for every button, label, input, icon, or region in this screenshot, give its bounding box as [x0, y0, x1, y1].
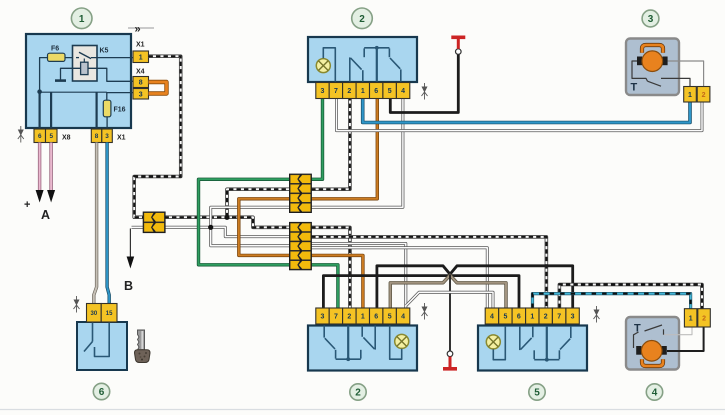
fuse F6 — [48, 53, 66, 61]
motor 3 armature — [642, 51, 663, 72]
relay K5 box — [73, 46, 98, 82]
svg-text:7: 7 — [557, 314, 561, 321]
svg-text:8: 8 — [139, 80, 143, 87]
svg-text:3: 3 — [571, 314, 575, 321]
junction dot bw — [224, 215, 229, 220]
bw dashed wire switch5 pin7 to motor4 pin2 — [559, 285, 702, 309]
svg-text:3: 3 — [321, 88, 325, 95]
svg-text:+: + — [24, 199, 30, 211]
svg-text:2: 2 — [702, 92, 706, 99]
svg-text:5: 5 — [503, 314, 507, 321]
black wire bottom switch pin6 to switch5 pin3 with crossover dip — [377, 266, 573, 308]
svg-text:5: 5 — [534, 388, 540, 399]
svg-text:2: 2 — [544, 314, 548, 321]
circled label 1 — [71, 8, 92, 29]
top switch pins 3 7 2 1 6 5 4 — [316, 83, 329, 99]
ground symbol T red top — [457, 39, 460, 49]
motor-reducer 4 box — [626, 317, 679, 370]
svg-text:8: 8 — [95, 133, 99, 140]
svg-text:4: 4 — [490, 314, 494, 321]
mounting block 1 box — [26, 34, 131, 128]
white wire junction to small connector row2 — [143, 226, 210, 229]
fuse F16 — [103, 100, 111, 117]
circled label 4 — [646, 384, 662, 400]
wire battery feed to fuse F6 — [40, 58, 73, 92]
white wire to top switch pin4 — [311, 99, 403, 208]
svg-text:2: 2 — [359, 14, 365, 25]
ground circle top — [456, 49, 462, 55]
svg-text:X1: X1 — [117, 135, 126, 142]
inline connector lower (5 rows) — [289, 222, 312, 270]
svg-text:2: 2 — [347, 88, 351, 95]
attach symbol right of top switch — [422, 83, 428, 100]
svg-text:5: 5 — [388, 314, 392, 321]
svg-text:15: 15 — [106, 311, 113, 317]
blue wire top switch pin1 to motor3 pin1 — [363, 99, 690, 123]
switch 5 box — [478, 326, 587, 371]
teal dashed wire switch5 pin1 to motor4 pin1 — [533, 294, 691, 309]
arrow A1 — [36, 190, 44, 203]
bw dashed wire lower row2 to switch 5 pin2 (long run) — [311, 237, 546, 308]
ignition pins 30,15 — [87, 304, 102, 323]
svg-text:6: 6 — [38, 133, 42, 140]
svg-text:1: 1 — [139, 54, 143, 61]
battery bus inside block1 — [40, 91, 107, 93]
pink wire A1 from X8-6 — [38, 143, 41, 192]
switch 5 interior mechanism (flipped) — [486, 326, 571, 362]
svg-text:4: 4 — [401, 88, 405, 95]
svg-text:F16: F16 — [114, 107, 126, 114]
wire to pin X8-5 — [50, 92, 52, 129]
bottom pins X8 6,5 — [34, 129, 46, 143]
svg-text:2: 2 — [355, 388, 361, 399]
svg-text:»: » — [135, 24, 141, 36]
svg-text:4: 4 — [652, 388, 658, 399]
svg-text:1: 1 — [689, 315, 693, 322]
relay K5 contact — [76, 57, 79, 59]
circled label 3 — [642, 10, 659, 27]
wire to pin X1-8 — [95, 92, 97, 129]
ignition key icon — [135, 330, 151, 363]
attach symbol right of bottom switch — [422, 303, 428, 320]
bottom pins X1 8,3 — [91, 129, 102, 143]
svg-text:T: T — [634, 323, 641, 335]
svg-text:1: 1 — [361, 88, 365, 95]
splice to body ground wire — [449, 275, 451, 352]
ignition contact mechanism — [92, 322, 94, 342]
svg-text:5: 5 — [388, 88, 392, 95]
lamp link wire pin4 to pin4 diagonal — [406, 292, 493, 308]
svg-text:3: 3 — [105, 133, 109, 140]
coil to internal ground — [61, 68, 81, 80]
attach symbol left of ignition — [74, 296, 80, 313]
orange jumper loop X4 8-3 — [149, 82, 167, 94]
attach symbol left of block1 pins — [18, 126, 24, 143]
svg-text:2: 2 — [347, 314, 351, 321]
relay K5 coil — [83, 59, 85, 63]
inline connector upper (4 rows) — [289, 174, 312, 213]
svg-text:4: 4 — [401, 314, 405, 321]
commutator 4 — [642, 359, 663, 366]
bw dashed wire lower row1 to bottom switch pin2 — [311, 227, 350, 308]
svg-text:2: 2 — [702, 315, 706, 322]
symbol to-other-circuit >> — [128, 27, 154, 29]
X4 pin3 to fuse F16 — [107, 93, 133, 101]
motor 4 pins 1,2 — [684, 309, 697, 327]
svg-text:A: A — [41, 208, 50, 222]
svg-text:X4: X4 — [136, 69, 145, 76]
svg-text:T: T — [631, 82, 638, 94]
svg-text:1: 1 — [530, 314, 534, 321]
motor 3 pins 1,2 — [684, 87, 697, 103]
commutator 3 — [642, 45, 663, 53]
orange wire upper row3 to lower row4 — [239, 199, 290, 256]
black wire top switch pin5 to ground T — [390, 54, 458, 112]
orange wire to top switch pin6 — [311, 99, 377, 199]
junction dot white — [208, 225, 213, 230]
bottom switch box — [308, 326, 417, 371]
motor-reducer 3 box — [626, 39, 679, 96]
coil to X4 pin 8 — [88, 68, 133, 81]
svg-text:7: 7 — [334, 88, 338, 95]
top switch box — [308, 37, 417, 82]
svg-text:1: 1 — [361, 314, 365, 321]
internal ground bar — [55, 79, 66, 82]
motor 3 brushes — [637, 57, 642, 66]
bottom switch interior mechanism (rotated) — [324, 326, 409, 362]
svg-text:5: 5 — [49, 133, 53, 140]
white wire junction to lower connector row3 — [211, 227, 290, 246]
pink wire A2 from X8-5 — [49, 143, 52, 192]
circled label 2 bottom — [350, 384, 366, 400]
svg-text:X1: X1 — [136, 42, 145, 49]
F16 to bottom pin X1-3 — [106, 117, 108, 129]
motor 4 armature — [641, 341, 662, 362]
page rule line bottom — [0, 409, 725, 411]
grey-brown wire bottom switch pin5 to switch5 pin5 with crossover bump — [390, 275, 506, 308]
blue wire X1-3 to ignition 15 — [107, 143, 109, 304]
svg-text:3: 3 — [139, 91, 143, 98]
grey wire X1-8 to ignition 30 — [94, 143, 97, 304]
inline connector small (2 rows) — [143, 212, 166, 234]
ground symbol bottom red — [449, 357, 452, 368]
green wire lower row5 to bottom switch pin7 — [311, 265, 338, 308]
wire to pin X8-6 — [38, 92, 40, 129]
svg-text:X8: X8 — [62, 135, 71, 142]
bw dashed wire from block1 X1-1 — [134, 56, 290, 227]
svg-text:6: 6 — [517, 314, 521, 321]
svg-text:30: 30 — [91, 311, 98, 317]
white wire upper connector row4 to junction — [211, 207, 290, 227]
green wire upper row1 to lower row5 — [199, 179, 290, 264]
motor 4 brushes — [636, 346, 641, 355]
attach symbol right of switch5 — [594, 306, 600, 323]
arrow A2 — [47, 190, 55, 203]
circled label 5 — [529, 384, 545, 400]
white wire lower row3b to switch5 pin4 — [311, 248, 487, 308]
svg-text:3: 3 — [648, 14, 654, 25]
svg-text:6: 6 — [374, 88, 378, 95]
green wire to top switch pin3 — [311, 99, 322, 180]
svg-text:B: B — [124, 279, 133, 293]
top switch interior mechanism — [316, 46, 401, 82]
svg-text:F6: F6 — [51, 46, 59, 53]
svg-text:K5: K5 — [100, 48, 109, 55]
bw dashed wire to top switch pin2 — [311, 99, 350, 190]
arrow B — [127, 257, 135, 269]
svg-text:1: 1 — [688, 92, 692, 99]
white wire to node B — [132, 226, 144, 229]
svg-text:1: 1 — [79, 14, 85, 25]
motor 4 internal wires — [664, 327, 693, 335]
circled label 2 top — [352, 8, 373, 29]
svg-text:6: 6 — [374, 314, 378, 321]
ground circle bottom — [447, 351, 453, 357]
ignition switch box — [77, 322, 127, 370]
black wire bottom switch pin3 to splice — [323, 276, 519, 308]
bw dashed branch to upper connector row2 — [227, 189, 290, 217]
junction dot block1 — [37, 89, 42, 94]
svg-text:7: 7 — [334, 314, 338, 321]
white wire junction to lower connector row2 — [211, 227, 290, 236]
circled label 6 — [93, 383, 109, 399]
white wire lower row3a to bottom switch pin4 — [311, 244, 406, 309]
orange wire lower row4 to bottom switch pin1 — [311, 255, 363, 308]
white wire top switch pin7 to motor3 pin2 — [337, 99, 703, 131]
motor 3 internal wires — [632, 61, 648, 81]
svg-text:3: 3 — [321, 314, 325, 321]
svg-text:6: 6 — [99, 387, 105, 398]
